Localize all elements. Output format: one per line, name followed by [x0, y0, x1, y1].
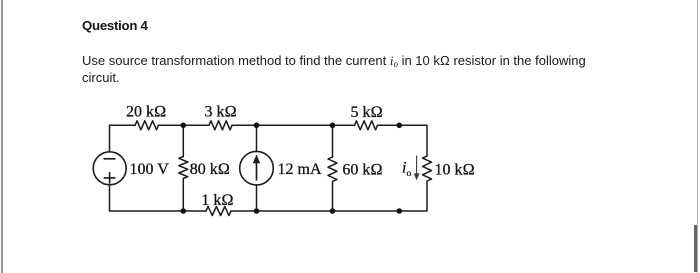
node bottom 60k — [330, 208, 336, 214]
left page border — [1, 0, 3, 273]
io current arrow — [414, 156, 419, 181]
heading Question 4 — [82, 18, 148, 33]
wire top right + right vertical down to 10k — [378, 125, 428, 156]
svg-text:3 kΩ: 3 kΩ — [205, 104, 237, 121]
resistor R 5k zigzag — [355, 121, 378, 130]
resistor R 80k branch wires — [182, 125, 184, 211]
resistor R 3k zigzag — [209, 121, 232, 130]
resistor R 10k zigzag — [423, 156, 432, 181]
svg-text:100 V: 100 V — [130, 161, 170, 178]
node top 60k — [330, 123, 336, 129]
svg-text:o: o — [407, 169, 412, 179]
node bottom current source — [254, 208, 260, 214]
voltage source polarity minus — [104, 158, 116, 160]
resistor R 1k zigzag — [206, 207, 231, 216]
node top current source — [254, 123, 260, 129]
svg-text:60 kΩ: 60 kΩ — [342, 162, 382, 179]
svg-text:10 kΩ: 10 kΩ — [435, 162, 475, 179]
svg-text:1 kΩ: 1 kΩ — [201, 192, 233, 209]
svg-text:12 mA: 12 mA — [278, 161, 322, 178]
resistor R 60k zigzag — [328, 157, 337, 182]
current source I1 branch wires — [256, 125, 258, 211]
svg-text:5 kΩ: 5 kΩ — [351, 104, 383, 121]
wire top between 3k and 5k — [232, 124, 355, 126]
resistor R 60k branch wires — [332, 125, 334, 211]
current source I1 circle — [240, 151, 274, 185]
node top 80k — [181, 123, 187, 129]
voltage source polarity plus — [104, 172, 116, 184]
current source arrow — [253, 155, 260, 181]
node bottom 80k — [181, 208, 187, 214]
resistor R 20k zigzag — [135, 121, 159, 130]
body paragraph — [82, 52, 602, 87]
right page border — [697, 0, 698, 273]
wire top-left segment — [110, 125, 136, 152]
labels — [126, 104, 475, 210]
voltage source V1 circle — [93, 152, 126, 185]
resistor R 80k zigzag — [179, 157, 188, 179]
scrollbar thumb — [694, 225, 697, 272]
svg-text:80 kΩ: 80 kΩ — [190, 161, 230, 178]
wire top between 20k and 3k — [159, 124, 210, 126]
node bottom right — [397, 208, 403, 214]
node dots — [181, 123, 403, 214]
wire bottom-left + left vertical up to source — [110, 185, 207, 211]
node top right — [397, 123, 403, 129]
svg-text:20 kΩ: 20 kΩ — [126, 104, 166, 121]
wire right vertical bottom + bottom wire right portion — [231, 181, 427, 211]
